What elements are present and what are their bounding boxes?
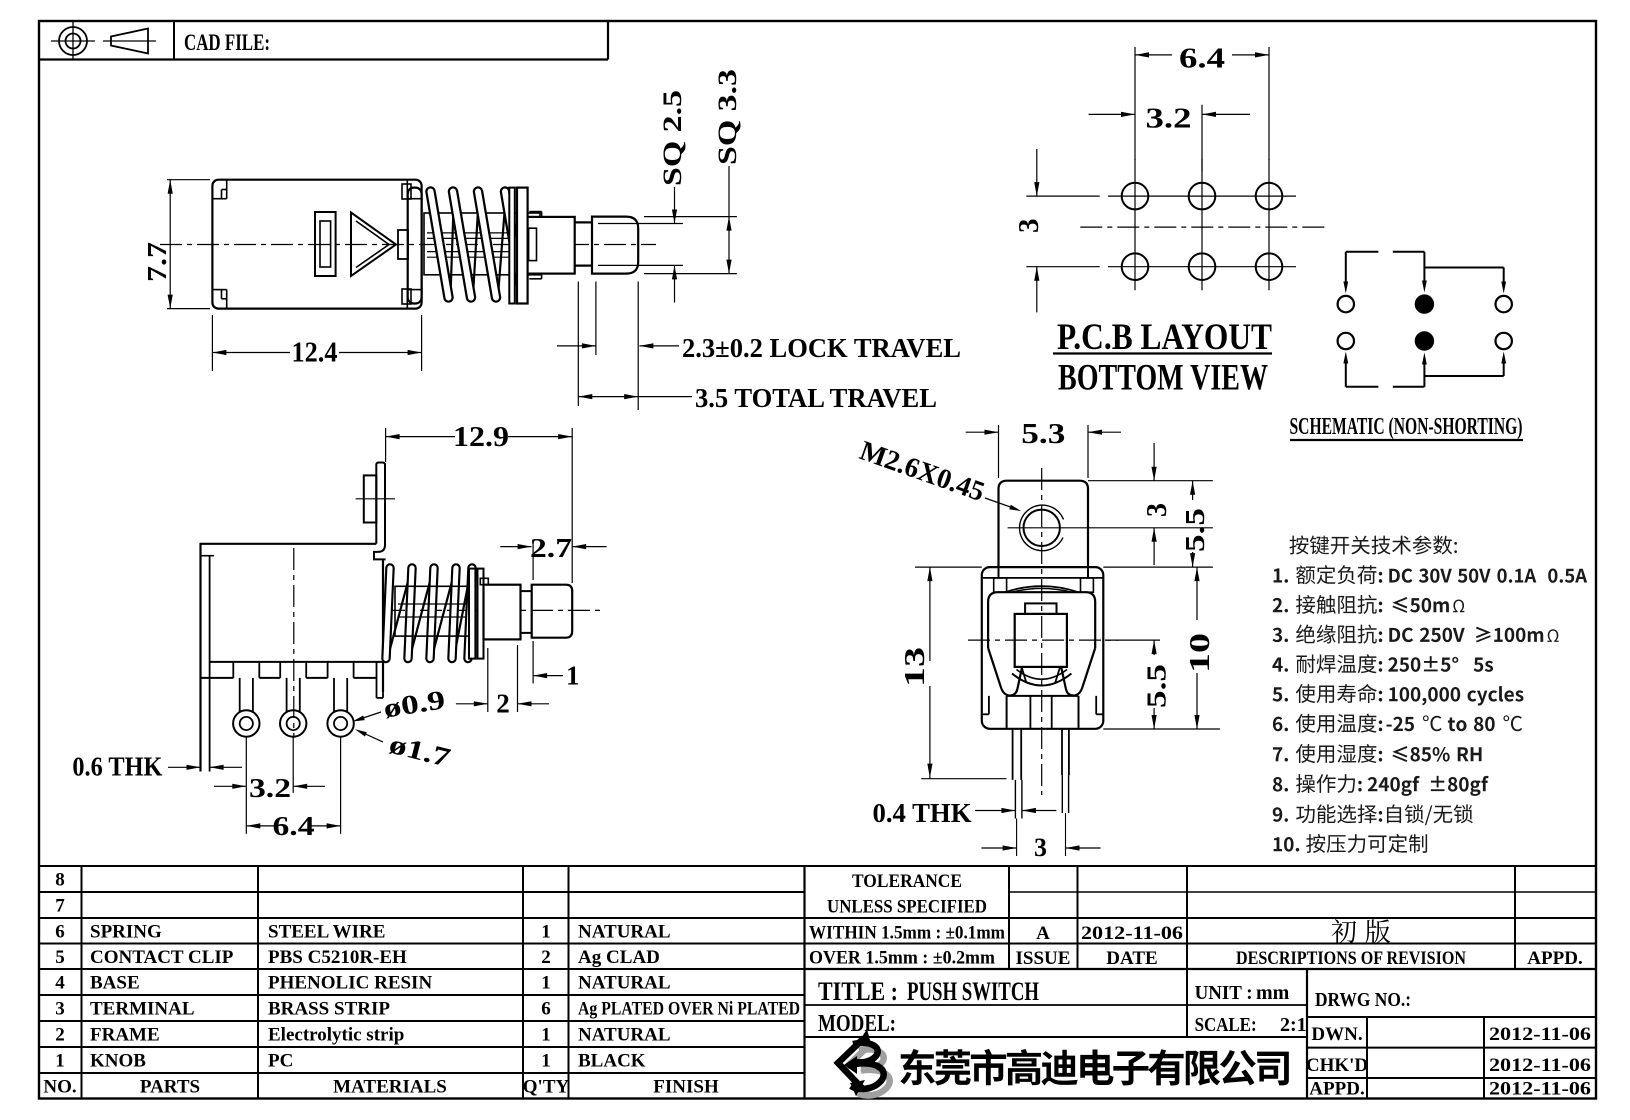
dimension 5.5 upper [1180,481,1210,567]
dimension 5.3 [966,419,1121,478]
dimension 10 [1103,567,1216,729]
view4 centerlines [968,468,1118,795]
view1 narrow shaft [575,222,592,265]
view1 washer plates [509,188,527,304]
svg-text:NO.: NO. [43,1077,76,1098]
svg-text:TOLERANCE: TOLERANCE [852,871,962,892]
view1 switch body outline [212,180,421,309]
svg-text:NATURAL: NATURAL [578,1025,671,1046]
svg-text:FINISH: FINISH [653,1077,719,1098]
svg-text:3: 3 [55,999,65,1020]
svg-text:7.7: 7.7 [142,242,172,282]
svg-text:2:1: 2:1 [1280,1014,1307,1036]
company logo [838,1029,890,1096]
wire pole2 switch contact bottom-mid [1393,353,1427,387]
view4 contact clip frame [988,592,1095,695]
view1 spring coil [431,192,528,298]
schematic pin 5 common terminal [1415,332,1433,350]
svg-text:8: 8 [55,870,65,891]
svg-text:5: 5 [55,947,65,968]
pcb dimension 6.4 [1135,43,1269,161]
svg-text:KNOB: KNOB [90,1051,146,1072]
svg-text:STEEL WIRE: STEEL WIRE [268,922,385,943]
dimension 1 [533,580,579,691]
CAD FILE: label [184,30,270,55]
dimension 12.4 [212,315,421,371]
view3 narrow shaft [521,591,532,633]
dimension 3 pins [981,833,1100,862]
tolerance box text [809,871,1583,969]
parts table grid [39,866,805,1099]
view3 mounting bracket [356,463,395,560]
svg-text:7: 7 [55,896,65,917]
dimension 7.7 [142,180,210,309]
view4 base section [982,696,1104,729]
svg-text:BLACK: BLACK [578,1051,646,1072]
drawing number block [1306,989,1596,1100]
svg-text:3.2: 3.2 [249,773,291,803]
svg-text:1: 1 [566,661,580,691]
view4 M2.6 threaded hole [1008,505,1076,551]
svg-text:P.C.B LAYOUT: P.C.B LAYOUT [1057,317,1272,358]
view3 spring coil [386,568,472,659]
svg-text:0.6 THK: 0.6 THK [72,752,162,782]
svg-text:PBS C5210R-EH: PBS C5210R-EH [268,947,407,968]
wire pole2 common to pin6 [1424,352,1506,377]
wire pole1 common to pin3 [1424,268,1506,294]
svg-text:2012-11-06: 2012-11-06 [1489,1079,1591,1100]
svg-text:DRWG NO.:: DRWG NO.: [1315,989,1411,1011]
dimension 3.5 TOTAL TRAVEL [578,383,937,413]
svg-text:ISSUE: ISSUE [1016,948,1071,969]
view1 pawl triangle [351,213,396,277]
view4 right foot [1078,696,1080,729]
svg-text:DWN.: DWN. [1311,1024,1362,1045]
company name [900,1049,1289,1086]
pcb layout crosshair lines [1108,159,1296,291]
view3 body outline [201,543,384,772]
svg-text:MATERIALS: MATERIALS [333,1077,447,1098]
svg-text:CONTACT CLIP: CONTACT CLIP [90,947,234,968]
view3 shaft through spring [395,586,469,636]
svg-text:2012-11-06: 2012-11-06 [1081,923,1183,944]
svg-text:1: 1 [541,973,551,994]
svg-text:BRASS STRIP: BRASS STRIP [268,999,390,1020]
svg-text:2012-11-06: 2012-11-06 [1489,1024,1591,1045]
svg-text:3: 3 [1013,219,1045,234]
pcb layout centerline [1080,226,1325,228]
svg-text:3: 3 [1142,503,1173,517]
dimension SQ 2.5 [658,90,687,303]
pcb dimension 3 [1013,149,1100,312]
svg-text:2012-11-06: 2012-11-06 [1489,1055,1591,1076]
view1 cam follower bar [398,230,408,259]
svg-text:APPD.: APPD. [1527,948,1582,969]
svg-text:mm: mm [1256,982,1290,1004]
svg-text:1: 1 [55,1051,65,1072]
pcb layout hole circles [1122,183,1283,280]
svg-text:SCALE:: SCALE: [1195,1014,1257,1036]
schematic pin 6 terminal [1496,333,1512,349]
svg-text:SQ 3.3: SQ 3.3 [713,69,742,165]
svg-text:WITHIN 1.5mm : ±0.1mm: WITHIN 1.5mm : ±0.1mm [809,923,1005,944]
svg-text:3: 3 [1034,833,1047,862]
view1 shaft through spring [424,213,540,275]
label diameter 1.7 [355,729,454,773]
view3 right foot [376,662,378,698]
view3 terminal pins and eyelets [233,678,354,834]
view1 inner slot [315,212,336,276]
view4 spring dome arcs [1005,586,1078,592]
view3 body bottom and terminal slots [201,662,384,698]
svg-text:NATURAL: NATURAL [578,922,671,943]
view3 knob plunger [532,585,573,638]
view1 knob plunger [592,217,638,274]
svg-text:Electrolytic strip: Electrolytic strip [268,1025,404,1046]
svg-text:1: 1 [541,1051,551,1072]
dimension 3.2 terminals [214,773,325,803]
schematic pin 1 terminal [1338,296,1354,312]
title block grid [805,866,1597,969]
view4 mounting bracket front [999,481,1089,567]
CAD FILE title box [39,21,608,60]
svg-text:2: 2 [55,1025,65,1046]
view4 left foot [1006,696,1008,729]
label diameter 0.9 [353,684,448,723]
svg-text:1: 1 [541,1025,551,1046]
dimension 2.3 +/-0.2 LOCK TRAVEL [557,333,961,363]
svg-text:APPD.: APPD. [1309,1079,1364,1100]
svg-text:A: A [1036,923,1050,944]
svg-text:6.4: 6.4 [1179,43,1225,75]
svg-text:10: 10 [1185,633,1216,673]
schematic pin 3 terminal [1496,296,1512,312]
svg-text:OVER 1.5mm : ±0.2mm: OVER 1.5mm : ±0.2mm [809,948,995,969]
svg-text:Ag CLAD: Ag CLAD [578,947,660,968]
svg-text:TERMINAL: TERMINAL [90,999,195,1020]
svg-text:BOTTOM VIEW: BOTTOM VIEW [1058,358,1268,399]
svg-text:TITLE :: TITLE : [818,977,898,1006]
view1 centerline [160,244,656,246]
P.C.B LAYOUT label [1053,317,1272,399]
parts table text [43,870,800,1098]
svg-text:CHK'D: CHK'D [1306,1055,1368,1076]
svg-text:5.5: 5.5 [1142,664,1172,708]
svg-text:DESCRIPTIONS OF REVISION: DESCRIPTIONS OF REVISION [1236,948,1466,969]
revision text chu ban [1332,919,1391,943]
svg-text:3.2: 3.2 [1146,103,1192,135]
view1 SQ3.3 extension lines [644,217,737,274]
svg-text:2: 2 [541,947,551,968]
view4 body outline [982,567,1104,729]
svg-text:SPRING: SPRING [90,922,162,943]
svg-text:6: 6 [55,922,65,943]
view1 travel extension lines [578,282,638,411]
SCHEMATIC (NON-SHORTING) label [1290,414,1524,440]
view1 stepped block [528,212,575,279]
svg-text:Ag PLATED OVER Ni PLATED: Ag PLATED OVER Ni PLATED [578,999,800,1020]
svg-text:0.4 THK: 0.4 THK [873,798,972,828]
svg-text:PARTS: PARTS [140,1077,200,1098]
dimension 2.7 [500,533,606,580]
dimension 6.4 terminals [246,811,340,841]
view3 centerlines [294,548,600,738]
svg-text:FRAME: FRAME [90,1025,160,1046]
svg-text:UNIT :: UNIT : [1195,982,1253,1004]
svg-text:3.5 TOTAL TRAVEL: 3.5 TOTAL TRAVEL [695,383,937,413]
svg-text:BASE: BASE [90,973,140,994]
svg-text:2: 2 [496,689,510,719]
view3 washer plates [469,569,484,659]
svg-text:CAD FILE:: CAD FILE: [184,30,270,55]
svg-text:13: 13 [900,647,931,687]
svg-text:Q'TY: Q'TY [523,1077,570,1098]
view1 body corner notches [212,180,421,309]
view4 plunger front [1012,603,1071,685]
pcb dimension 3.2 [1089,103,1250,172]
svg-text:2.7: 2.7 [530,533,572,563]
dimension SQ 3.3 [713,69,742,274]
dimension 0.4 THK [873,798,1057,828]
svg-text:PUSH SWITCH: PUSH SWITCH [907,977,1039,1006]
svg-text:UNLESS SPECIFIED: UNLESS SPECIFIED [827,897,987,918]
svg-text:PHENOLIC RESIN: PHENOLIC RESIN [268,973,432,994]
svg-text:4: 4 [55,973,65,994]
first-angle projection symbol: cone [103,29,156,54]
title model block [805,969,1308,1099]
svg-text:2.3±0.2 LOCK TRAVEL: 2.3±0.2 LOCK TRAVEL [682,333,961,363]
wire pole1 switch contact top-mid [1393,252,1427,293]
view4 terminal pins front [1013,729,1069,856]
svg-text:DATE: DATE [1106,948,1157,969]
svg-text:SCHEMATIC (NON-SHORTING): SCHEMATIC (NON-SHORTING) [1290,414,1523,440]
wire pole2 switch contact bottom-left [1343,352,1378,387]
svg-text:NATURAL: NATURAL [578,973,671,994]
first-angle projection symbol: target circle [51,22,95,60]
dimension 3 bracket [1076,443,1213,565]
view1 body right cap [402,184,422,304]
svg-text:SQ 2.5: SQ 2.5 [658,90,687,186]
view3 stepped block [480,578,520,639]
svg-text:6: 6 [541,999,551,1020]
chinese technical parameters block [1272,535,1587,853]
dimension 2 [456,645,549,719]
dimension 5.5 lower [1103,640,1220,729]
svg-text:1: 1 [541,922,551,943]
schematic pin 2 common terminal [1415,295,1433,313]
svg-text:MODEL:: MODEL: [818,1011,896,1037]
dimension 0.6 THK [72,752,242,782]
svg-text:5.3: 5.3 [1021,419,1065,450]
svg-text:12.4: 12.4 [292,338,338,369]
svg-text:12.9: 12.9 [453,422,509,453]
view1 SQ2.5 extension lines [598,224,683,266]
dimension 12.9 [386,422,573,580]
schematic pin 4 terminal [1338,333,1354,349]
svg-text:6.4: 6.4 [273,811,315,841]
svg-text:5.5: 5.5 [1180,508,1210,552]
wire pole1 switch contact top-left [1343,252,1378,294]
dimension 13 [900,567,1006,779]
svg-text:PC: PC [268,1051,293,1072]
label M2.6X0.45 [856,435,1022,511]
